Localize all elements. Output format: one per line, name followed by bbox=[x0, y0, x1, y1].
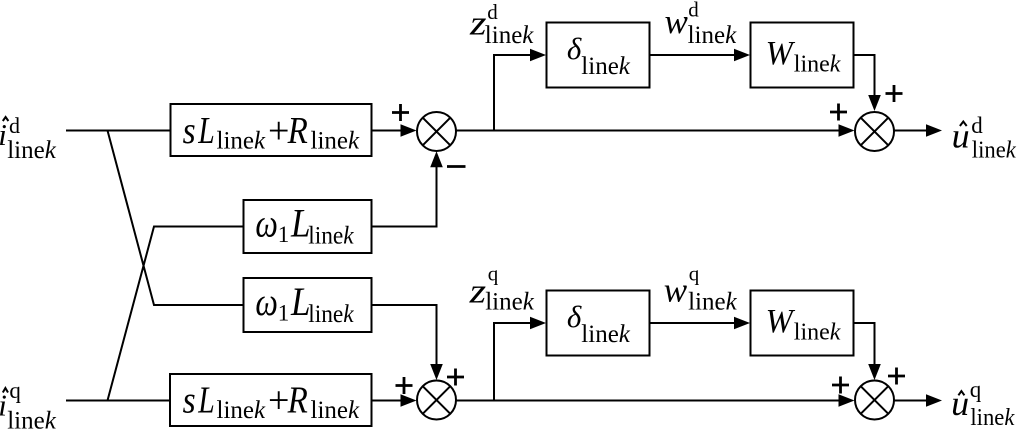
svg-text:L: L bbox=[197, 110, 214, 152]
plus sign at J3 top input bbox=[447, 369, 464, 386]
plus sign at J3 left input bbox=[396, 377, 413, 394]
plus sign at J1 input bbox=[392, 104, 409, 121]
wire: sL+R d output to junction J1 bbox=[372, 130, 403, 132]
box text W d-axis bbox=[766, 35, 841, 78]
arrowhead into J1 left bbox=[401, 124, 417, 137]
box text sL+R d-axis bbox=[183, 110, 360, 154]
wire: diagonal from q-input branch to upper omega box bbox=[108, 227, 244, 401]
svg-text:+: + bbox=[268, 110, 289, 152]
arrowhead into delta q box bbox=[530, 317, 546, 330]
svg-text:w: w bbox=[664, 271, 688, 310]
plus sign at J2 top input bbox=[886, 85, 903, 102]
minus sign at J1 bottom input bbox=[447, 165, 466, 168]
svg-text:linek: linek bbox=[485, 289, 535, 316]
wire: W q output down into J4 bbox=[854, 323, 875, 366]
summing junction J1 bbox=[417, 112, 456, 151]
label z q bbox=[468, 262, 534, 316]
wire: sL+R q output to junction J3 bbox=[372, 400, 403, 402]
svg-text:d: d bbox=[688, 0, 699, 21]
box text W q-axis bbox=[766, 303, 841, 346]
svg-text:q: q bbox=[970, 377, 982, 402]
label u-hat d output bbox=[952, 113, 1016, 164]
label u-hat q output bbox=[951, 377, 1015, 429]
box text sL+R q-axis bbox=[183, 380, 360, 424]
box omega1L lower bbox=[244, 278, 372, 332]
svg-text:L: L bbox=[197, 380, 214, 422]
wire: d-axis input line bbox=[66, 130, 171, 132]
svg-text:z: z bbox=[468, 272, 486, 311]
svg-text:linek: linek bbox=[311, 397, 361, 424]
wire: J1 to J2 main d line bbox=[456, 130, 840, 132]
box delta q-axis bbox=[547, 291, 650, 356]
svg-text:d: d bbox=[971, 113, 983, 138]
label w q bbox=[664, 262, 738, 316]
wire: q takeoff up to delta box bbox=[494, 323, 532, 401]
wire: W d output down into J2 bbox=[854, 55, 875, 96]
wire: delta q to W q bbox=[650, 322, 737, 324]
box text delta d-axis bbox=[567, 31, 631, 80]
wire: q-axis input line bbox=[66, 400, 170, 402]
summing junction J4 bbox=[855, 381, 894, 420]
svg-text:R: R bbox=[287, 380, 308, 422]
arrowhead into delta d box bbox=[530, 49, 546, 62]
svg-text:δ: δ bbox=[567, 31, 582, 66]
label w d bbox=[665, 0, 738, 49]
svg-text:linek: linek bbox=[972, 138, 1016, 164]
svg-text:d: d bbox=[9, 113, 20, 138]
svg-text:linek: linek bbox=[217, 127, 267, 154]
wire: d takeoff up to delta box bbox=[494, 55, 532, 131]
svg-text:linek: linek bbox=[581, 321, 631, 348]
arrowhead into J4 left bbox=[839, 394, 855, 407]
svg-text:linek: linek bbox=[581, 53, 631, 80]
summing junction J3 bbox=[417, 381, 456, 420]
svg-text:u: u bbox=[951, 384, 969, 423]
plus sign at J2 left input bbox=[830, 104, 847, 121]
box text omega1L upper bbox=[255, 200, 354, 249]
wire: upper omega box output up into J1 bbox=[372, 167, 437, 227]
label i-hat q input bbox=[0, 378, 57, 429]
svg-text:linek: linek bbox=[217, 397, 267, 424]
plus sign at J4 top input bbox=[888, 368, 905, 385]
box sL+R q-axis bbox=[170, 374, 372, 426]
box sL+R d-axis bbox=[171, 104, 372, 156]
wire: delta d to W d bbox=[650, 54, 737, 56]
svg-text:R: R bbox=[287, 110, 308, 152]
arrowhead d output bbox=[926, 124, 942, 137]
wire: J4 output arrow line bbox=[894, 400, 928, 402]
svg-text:ω: ω bbox=[255, 200, 278, 245]
box W q-axis bbox=[751, 291, 854, 356]
svg-text:linek: linek bbox=[485, 22, 535, 49]
svg-text:W: W bbox=[766, 35, 796, 72]
summing junction J2 bbox=[855, 112, 894, 151]
svg-text:u: u bbox=[952, 117, 970, 156]
svg-text:δ: δ bbox=[567, 299, 582, 334]
label z d bbox=[469, 0, 535, 49]
box text delta q-axis bbox=[567, 299, 631, 348]
svg-text:1: 1 bbox=[278, 222, 290, 247]
svg-text:linek: linek bbox=[311, 127, 361, 154]
svg-text:1: 1 bbox=[278, 301, 290, 326]
svg-text:ω: ω bbox=[255, 279, 278, 324]
box omega1L upper bbox=[244, 200, 372, 253]
svg-text:linek: linek bbox=[308, 223, 354, 250]
svg-text:linek: linek bbox=[7, 408, 57, 429]
arrowhead up into J1 bottom bbox=[430, 151, 443, 167]
arrowhead into J2 left bbox=[839, 124, 855, 137]
arrowhead down into J2 top bbox=[868, 95, 881, 111]
svg-text:+: + bbox=[268, 380, 289, 422]
svg-text:s: s bbox=[183, 380, 196, 422]
svg-text:q: q bbox=[689, 262, 700, 286]
svg-text:w: w bbox=[665, 2, 689, 41]
svg-text:q: q bbox=[9, 378, 21, 403]
svg-text:d: d bbox=[487, 0, 498, 24]
svg-text:s: s bbox=[183, 110, 196, 152]
arrowhead down into J4 top bbox=[868, 364, 881, 380]
wire: J3 to J4 main q line bbox=[456, 400, 840, 402]
wire: J2 output arrow line bbox=[894, 130, 928, 132]
wire: lower omega box output down into J3 bbox=[372, 305, 437, 365]
box W d-axis bbox=[751, 23, 854, 88]
svg-text:linek: linek bbox=[688, 22, 738, 49]
svg-text:linek: linek bbox=[794, 320, 841, 346]
plus sign at J4 left input bbox=[832, 377, 849, 394]
svg-text:linek: linek bbox=[688, 289, 738, 316]
wire: diagonal from d-input branch to lower omega box bbox=[108, 131, 244, 306]
box delta d-axis bbox=[547, 23, 650, 88]
arrowhead into W q box bbox=[734, 317, 750, 330]
svg-text:linek: linek bbox=[308, 301, 354, 328]
arrowhead down into J3 top bbox=[430, 364, 443, 380]
arrowhead into W d box bbox=[734, 49, 750, 62]
svg-text:W: W bbox=[766, 303, 796, 340]
arrowhead into J3 left bbox=[401, 394, 417, 407]
svg-text:linek: linek bbox=[794, 52, 841, 78]
svg-text:linek: linek bbox=[7, 137, 57, 164]
svg-text:linek: linek bbox=[970, 405, 1014, 429]
box text omega1L lower bbox=[255, 279, 354, 328]
svg-text:i: i bbox=[0, 117, 7, 152]
svg-text:q: q bbox=[488, 262, 499, 286]
arrowhead q output bbox=[926, 394, 942, 407]
label i-hat d input bbox=[0, 113, 57, 164]
